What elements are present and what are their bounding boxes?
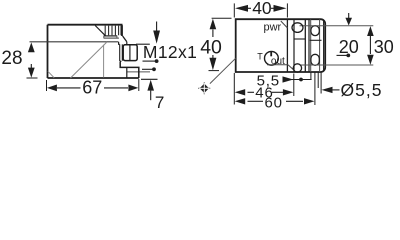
svg-text:pwr: pwr bbox=[264, 21, 282, 33]
svg-text:28: 28 bbox=[1, 48, 22, 69]
svg-text:30: 30 bbox=[374, 37, 394, 57]
svg-text:7: 7 bbox=[155, 93, 164, 109]
svg-text:40: 40 bbox=[252, 0, 272, 18]
svg-text:Ø5,5: Ø5,5 bbox=[341, 80, 383, 100]
svg-text:60: 60 bbox=[265, 94, 283, 109]
svg-text:67: 67 bbox=[82, 77, 102, 97]
svg-text:40: 40 bbox=[200, 37, 222, 59]
svg-text:M12x1: M12x1 bbox=[143, 42, 197, 62]
svg-text:T: T bbox=[257, 52, 263, 62]
svg-text:out: out bbox=[271, 56, 285, 67]
svg-text:20: 20 bbox=[339, 37, 359, 57]
